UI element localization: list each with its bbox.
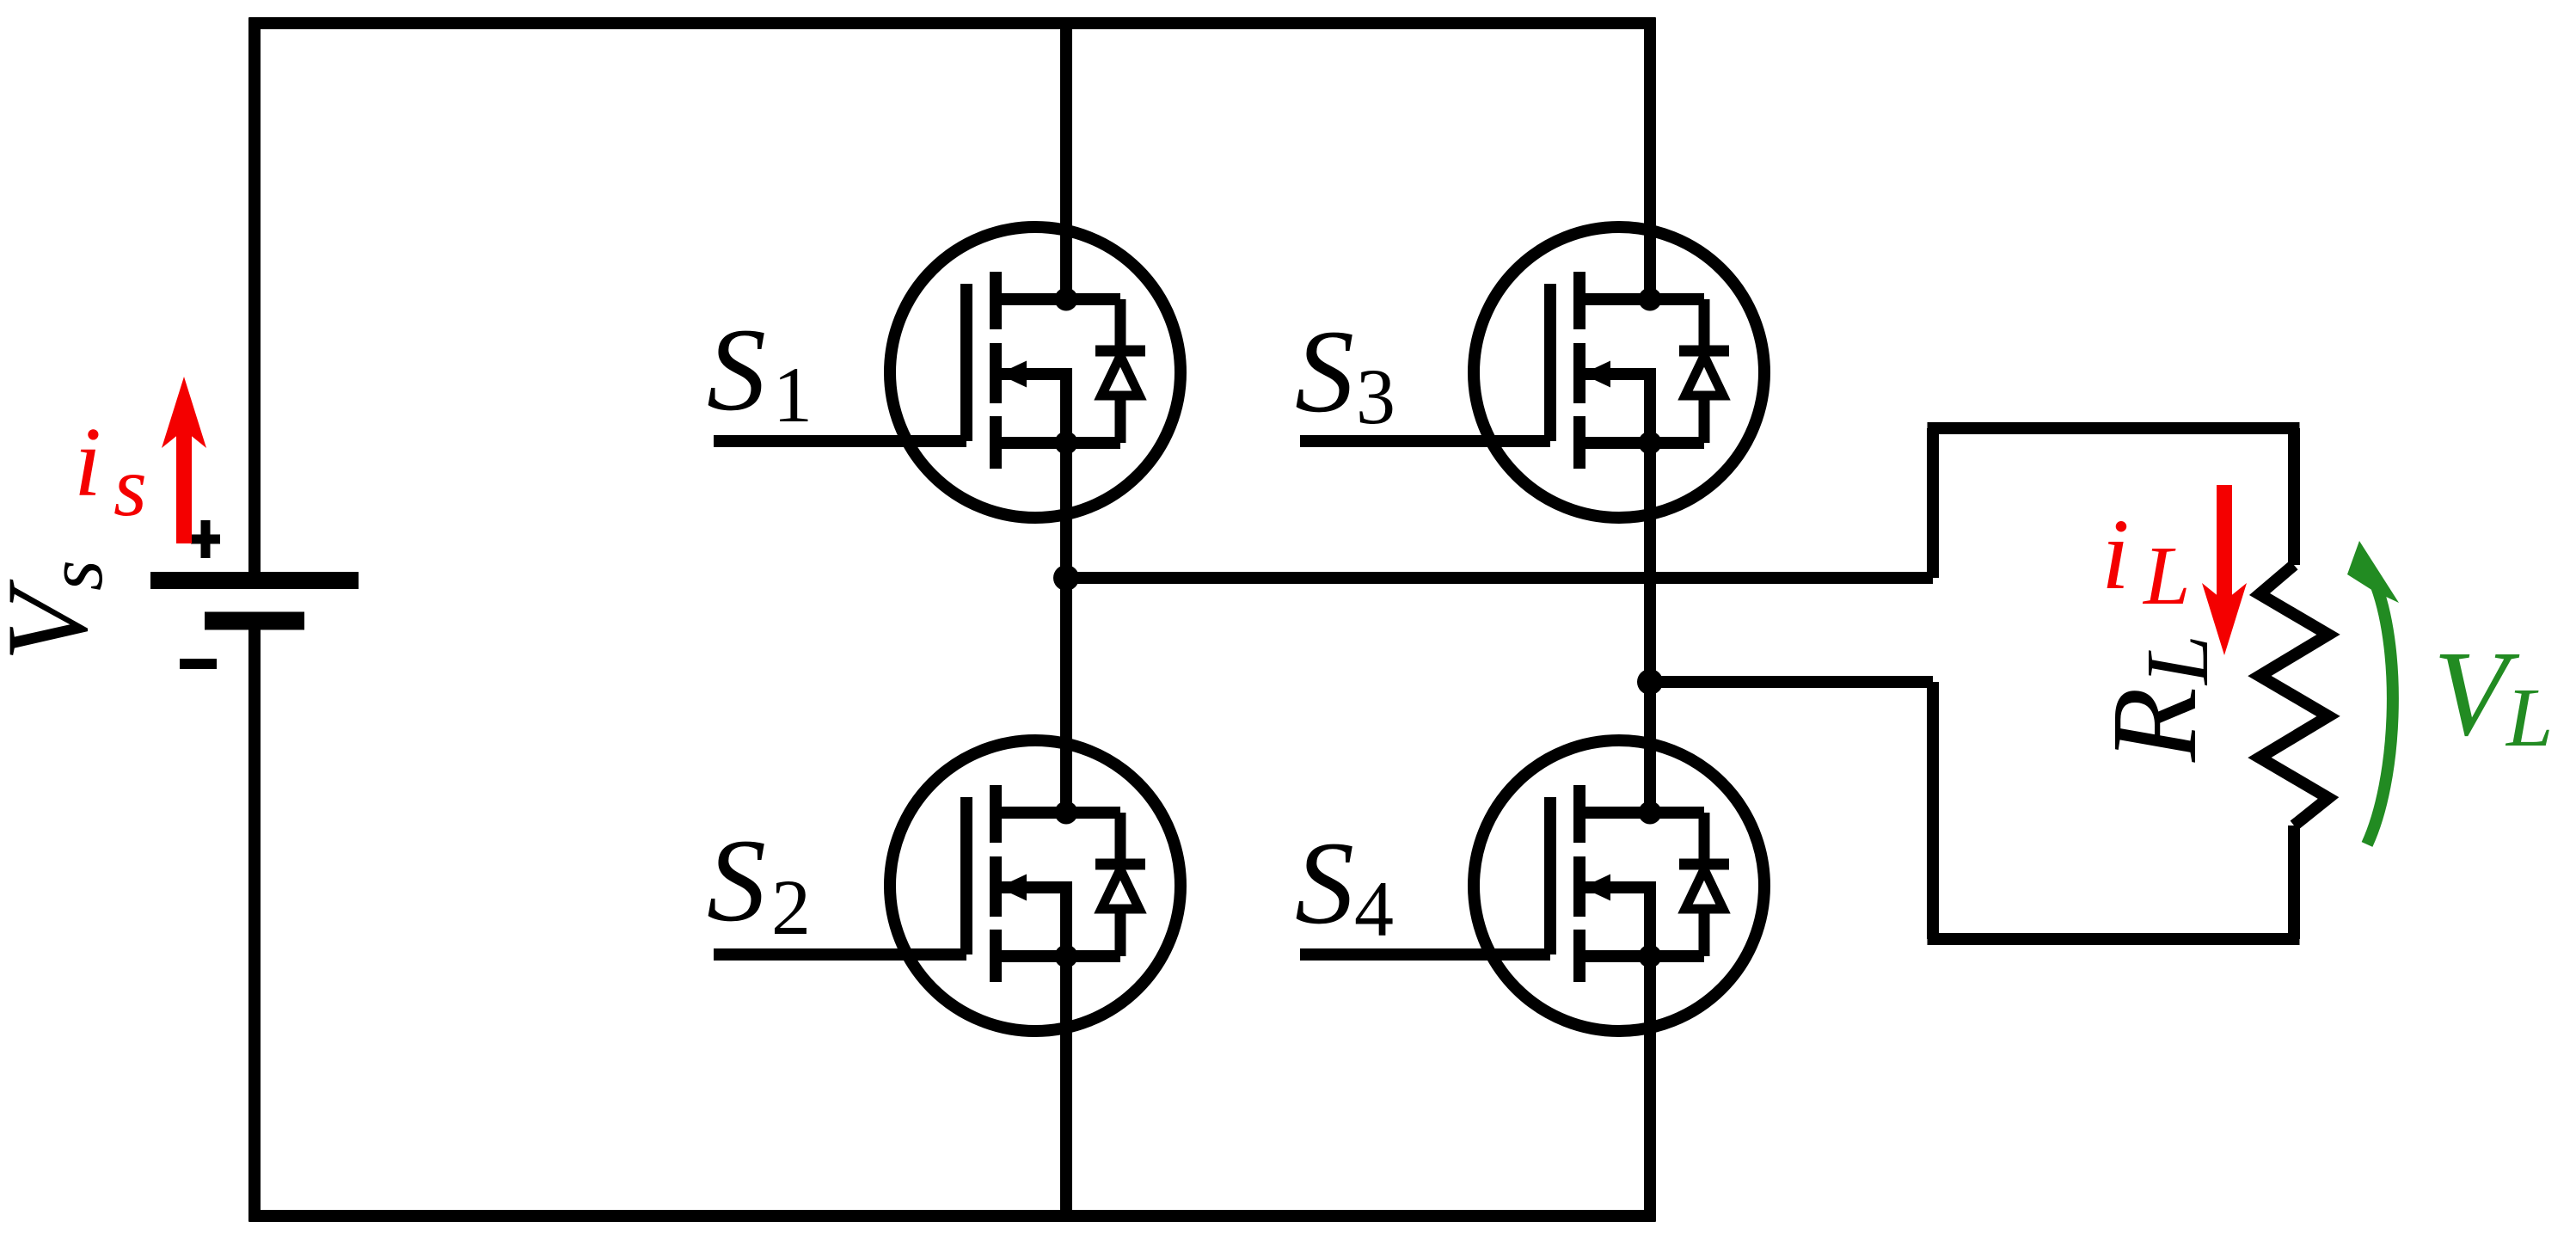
wire left leg upper (Vs positive side) xyxy=(248,18,261,581)
svg-text:i: i xyxy=(74,408,101,517)
svg-text:S: S xyxy=(707,304,766,435)
label RL (rotated) xyxy=(2086,635,2227,763)
svg-text:s: s xyxy=(113,439,147,534)
svg-text:L: L xyxy=(2142,530,2191,623)
voltage VL arc (green) xyxy=(2367,586,2393,844)
node B wire (S3/S4 midpoint to load bottom) xyxy=(1650,676,1933,688)
wire right leg below S4 xyxy=(1644,881,1656,1222)
svg-text:2: 2 xyxy=(771,863,811,951)
svg-text:s: s xyxy=(31,560,119,591)
wire left-mid leg S1 source to S2 drain xyxy=(1060,368,1072,813)
gate lead S1 xyxy=(714,435,966,447)
current is arrow (red) xyxy=(176,430,192,543)
battery Vs xyxy=(150,580,359,621)
transistor S1 (MOSFET) xyxy=(890,227,1181,518)
gate lead S4 xyxy=(1300,948,1550,961)
wire left-mid leg top segment (to S1 drain) xyxy=(1060,23,1072,299)
gate lead S2 xyxy=(714,948,966,961)
node A wire (S1/S2 midpoint to load top) xyxy=(1066,572,1933,584)
current iL arrow (red) xyxy=(2217,485,2232,602)
svg-text:3: 3 xyxy=(1356,353,1395,440)
wire left-mid leg below S2 xyxy=(1060,881,1072,1216)
label Vs (rotated) xyxy=(0,560,119,661)
gate lead S3 xyxy=(1300,435,1550,447)
svg-text:S: S xyxy=(1295,305,1354,437)
battery minus sign xyxy=(180,659,217,669)
junction node A dot xyxy=(1053,565,1079,591)
load box left edge upper xyxy=(1927,428,1939,578)
svg-text:i: i xyxy=(2101,498,2130,611)
load box top wire xyxy=(1928,422,2300,434)
wire right leg S3 source to S4 drain xyxy=(1644,368,1656,813)
wire right leg top segment (to S3 drain) xyxy=(1644,18,1656,300)
svg-text:L: L xyxy=(2505,672,2554,764)
battery short plate xyxy=(205,612,304,630)
load box right edge lower xyxy=(2288,826,2300,939)
svg-text:4: 4 xyxy=(1354,865,1394,953)
svg-text:L: L xyxy=(2128,635,2227,686)
battery long plate xyxy=(150,572,359,589)
wire left leg lower (Vs negative side) xyxy=(248,621,261,1222)
svg-text:S: S xyxy=(707,814,766,946)
junction node B dot xyxy=(1637,669,1663,695)
load box bottom wire xyxy=(1928,933,2300,945)
load box left edge lower xyxy=(1927,682,1939,939)
transistor S4 (MOSFET) xyxy=(1474,740,1764,1031)
wire bottom bus xyxy=(249,1210,1656,1222)
transistor S3 (MOSFET) xyxy=(1474,227,1764,518)
battery plus sign xyxy=(191,520,220,558)
resistor RL zigzag xyxy=(2260,565,2328,826)
transistor S2 (MOSFET) xyxy=(890,740,1181,1031)
wire top bus xyxy=(249,17,1656,29)
svg-text:R: R xyxy=(2086,687,2222,763)
svg-text:1: 1 xyxy=(773,351,813,439)
svg-text:S: S xyxy=(1295,817,1354,948)
load box right edge upper xyxy=(2288,428,2300,565)
